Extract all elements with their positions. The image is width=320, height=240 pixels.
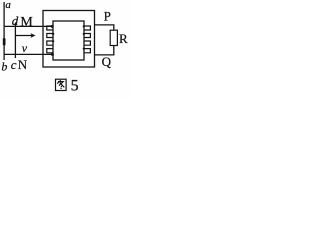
svg-text:c: c bbox=[11, 57, 17, 72]
caption 图 (drawn glyph) bbox=[56, 79, 67, 90]
velocity arrow v bbox=[16, 35, 33, 37]
secondary coil loop 2 bbox=[84, 34, 90, 38]
svg-text:R: R bbox=[119, 31, 128, 46]
transformer core outer rectangle bbox=[43, 11, 95, 68]
rod cd (sliding conductor) bbox=[14, 23, 16, 59]
primary coil loop 3 bbox=[47, 41, 53, 45]
junction dot bottom rail to primary bbox=[51, 53, 54, 56]
transformer core inner rectangle (window) bbox=[53, 21, 84, 60]
wire ab (left vertical boundary line) bbox=[3, 2, 5, 60]
svg-text:Q: Q bbox=[102, 54, 112, 69]
wire R bottom to Q bbox=[95, 46, 114, 55]
svg-text:M: M bbox=[20, 15, 33, 30]
junction dots on primary core edge bbox=[52, 33, 54, 35]
resistor R bbox=[110, 30, 117, 45]
primary coil loop 2 bbox=[47, 34, 53, 38]
wire secondary top to P and R bbox=[95, 25, 114, 30]
svg-text:5: 5 bbox=[71, 77, 79, 94]
secondary coil loop 3 bbox=[84, 41, 90, 45]
svg-text:v: v bbox=[22, 41, 28, 55]
primary coil loop 1 bbox=[47, 26, 53, 30]
svg-text:N: N bbox=[18, 57, 28, 72]
arrow marker on wire ab bbox=[3, 38, 6, 46]
svg-text:P: P bbox=[104, 8, 111, 23]
svg-text:a: a bbox=[5, 0, 11, 11]
secondary coil loop 4 bbox=[84, 49, 90, 53]
primary coil loop 4 bbox=[47, 49, 53, 53]
junction dots on secondary core edge bbox=[83, 25, 85, 27]
wire top rail d-M bbox=[4, 25, 54, 27]
secondary coil loop 1 bbox=[84, 26, 90, 30]
svg-text:b: b bbox=[1, 59, 7, 73]
svg-text:d: d bbox=[12, 13, 19, 28]
wire bottom rail c-N bbox=[4, 53, 54, 55]
junction dot top rail to primary bbox=[51, 25, 54, 28]
